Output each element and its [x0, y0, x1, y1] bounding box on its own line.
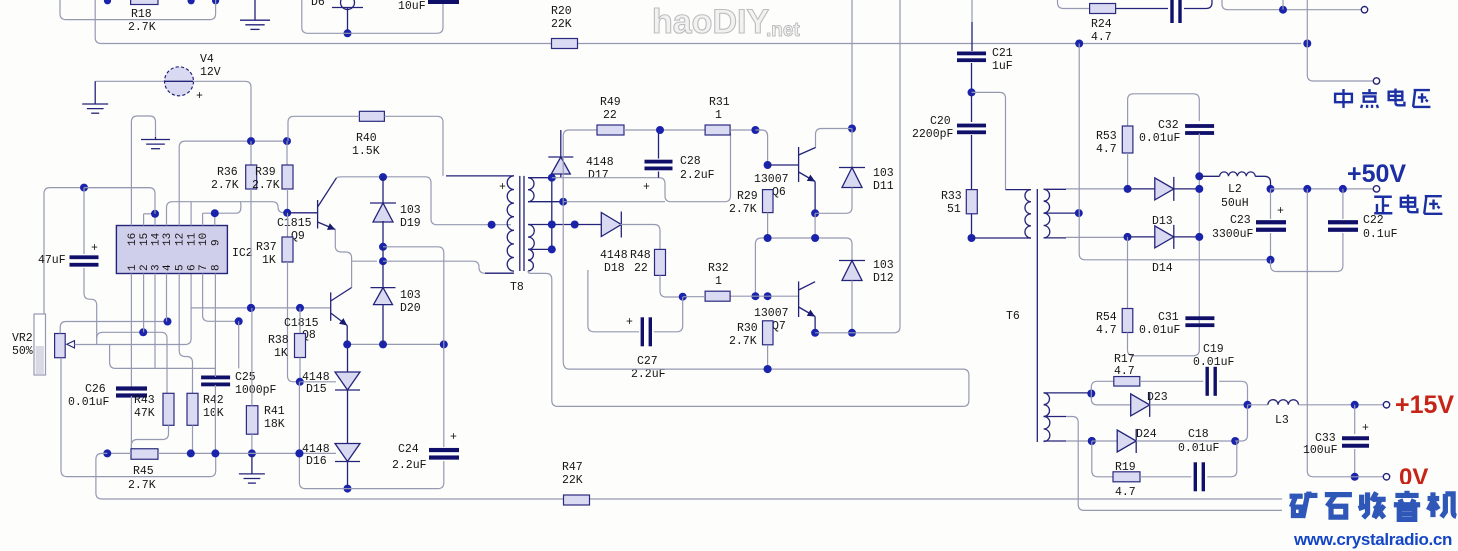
svg-text:+: +: [643, 181, 650, 194]
svg-text:C32: C32: [1158, 119, 1179, 132]
svg-text:Q6: Q6: [772, 186, 786, 199]
svg-text:14: 14: [151, 232, 163, 246]
svg-text:1K: 1K: [274, 347, 288, 360]
svg-text:C23: C23: [1230, 214, 1251, 227]
svg-text:C22: C22: [1363, 214, 1384, 227]
svg-text:103: 103: [400, 204, 421, 217]
svg-text:D23: D23: [1147, 391, 1168, 404]
svg-text:11: 11: [187, 232, 199, 246]
svg-text:R49: R49: [600, 96, 621, 109]
svg-text:51: 51: [947, 203, 961, 216]
svg-text:+: +: [626, 316, 633, 329]
svg-text:D11: D11: [873, 180, 894, 193]
svg-text:0.01uF: 0.01uF: [1193, 356, 1235, 369]
svg-text:R30: R30: [737, 322, 758, 335]
svg-text:4.7: 4.7: [1115, 486, 1136, 499]
svg-text:10K: 10K: [203, 407, 224, 420]
svg-text:1: 1: [715, 275, 722, 288]
svg-text:C1815: C1815: [277, 217, 312, 230]
svg-text:L3: L3: [1275, 414, 1289, 427]
svg-text:T6: T6: [1006, 310, 1020, 323]
svg-text:18K: 18K: [264, 418, 285, 431]
svg-text:22: 22: [603, 109, 617, 122]
svg-text:4.7: 4.7: [1091, 31, 1112, 44]
svg-text:R54: R54: [1096, 311, 1117, 324]
svg-text:VR2: VR2: [12, 332, 33, 345]
svg-text:22K: 22K: [562, 474, 583, 487]
svg-text:100uF: 100uF: [1303, 444, 1338, 457]
svg-text:2.7K: 2.7K: [128, 479, 156, 492]
svg-text:R47: R47: [562, 461, 583, 474]
svg-text:D20: D20: [400, 302, 421, 315]
svg-text:2.7K: 2.7K: [211, 179, 239, 192]
svg-text:1.5K: 1.5K: [352, 145, 380, 158]
svg-text:4.7: 4.7: [1096, 324, 1117, 337]
svg-text:R39: R39: [255, 166, 276, 179]
svg-text:50%: 50%: [12, 345, 33, 358]
svg-text:R53: R53: [1096, 130, 1117, 143]
svg-text:haoDIY: haoDIY: [652, 3, 769, 41]
svg-text:R29: R29: [737, 190, 758, 203]
svg-text:50uH: 50uH: [1221, 197, 1249, 210]
svg-text:22K: 22K: [551, 18, 572, 31]
svg-text:+: +: [91, 242, 98, 255]
svg-text:13007: 13007: [754, 173, 789, 186]
svg-text:4.7: 4.7: [1114, 365, 1135, 378]
svg-text:D15: D15: [306, 383, 327, 396]
svg-text:1: 1: [715, 109, 722, 122]
svg-text:D17: D17: [588, 169, 609, 182]
svg-text:R37: R37: [256, 241, 277, 254]
svg-text:www.crystalradio.cn: www.crystalradio.cn: [1293, 530, 1452, 549]
svg-text:+: +: [450, 431, 457, 444]
svg-text:8: 8: [210, 264, 222, 271]
svg-text:1: 1: [127, 264, 139, 271]
svg-text:R19: R19: [1115, 461, 1136, 474]
svg-text:D19: D19: [400, 217, 421, 230]
svg-text:C21: C21: [992, 47, 1013, 60]
svg-text:3300uF: 3300uF: [1212, 228, 1254, 241]
svg-text:0.1uF: 0.1uF: [1363, 228, 1398, 241]
svg-text:1uF: 1uF: [992, 60, 1013, 73]
svg-text:1K: 1K: [262, 254, 276, 267]
svg-text:0.01uF: 0.01uF: [1178, 442, 1220, 455]
svg-text:D18: D18: [604, 262, 625, 275]
svg-text:0.01uF: 0.01uF: [1139, 324, 1181, 337]
svg-text:R31: R31: [709, 96, 730, 109]
svg-text:T8: T8: [510, 281, 524, 294]
svg-text:D12: D12: [873, 272, 894, 285]
svg-text:2200pF: 2200pF: [912, 128, 954, 141]
svg-text:R41: R41: [264, 405, 285, 418]
svg-text:13: 13: [162, 233, 174, 246]
svg-text:C31: C31: [1158, 311, 1179, 324]
svg-text:9: 9: [210, 239, 222, 246]
svg-text:C28: C28: [680, 155, 701, 168]
svg-text:R48: R48: [630, 249, 651, 262]
svg-text:4: 4: [162, 264, 174, 271]
svg-text:+: +: [1362, 422, 1369, 435]
svg-text:2.7K: 2.7K: [128, 21, 156, 34]
svg-text:R40: R40: [356, 132, 377, 145]
svg-text:2: 2: [139, 264, 151, 271]
svg-text:103: 103: [873, 167, 894, 180]
svg-text:5: 5: [175, 264, 187, 271]
svg-text:V4: V4: [200, 53, 214, 66]
svg-text:2.2uF: 2.2uF: [392, 459, 427, 472]
svg-text:R38: R38: [268, 334, 289, 347]
svg-text:D14: D14: [1152, 262, 1173, 275]
svg-text:IC2: IC2: [232, 247, 253, 260]
svg-text:2.2uF: 2.2uF: [631, 368, 666, 381]
svg-text:+15V: +15V: [1395, 391, 1454, 419]
svg-text:+: +: [196, 90, 203, 103]
svg-text:4.7: 4.7: [1096, 143, 1117, 156]
svg-text:R24: R24: [1091, 18, 1112, 31]
svg-text:C20: C20: [930, 115, 951, 128]
svg-text:16: 16: [127, 233, 139, 246]
svg-text:C18: C18: [1188, 428, 1209, 441]
svg-text:C24: C24: [398, 443, 419, 456]
svg-text:10: 10: [198, 233, 210, 246]
svg-text:C26: C26: [85, 383, 106, 396]
svg-text:3: 3: [151, 264, 163, 271]
svg-text:D16: D16: [306, 455, 327, 468]
svg-text:13007: 13007: [754, 307, 789, 320]
svg-text:0.01uF: 0.01uF: [1139, 132, 1181, 145]
svg-text:C27: C27: [637, 355, 658, 368]
svg-text:C19: C19: [1203, 343, 1224, 356]
svg-text:R32: R32: [708, 262, 729, 275]
svg-text:2.7K: 2.7K: [729, 335, 757, 348]
svg-text:2.2uF: 2.2uF: [680, 169, 715, 182]
svg-text:4148: 4148: [586, 156, 614, 169]
svg-text:L2: L2: [1228, 183, 1242, 196]
svg-text:4148: 4148: [600, 249, 628, 262]
svg-text:+: +: [1277, 205, 1284, 218]
svg-text:R33: R33: [941, 190, 962, 203]
svg-text:103: 103: [400, 289, 421, 302]
svg-text:103: 103: [873, 259, 894, 272]
svg-text:.net: .net: [766, 20, 800, 41]
svg-text:0.01uF: 0.01uF: [68, 396, 110, 409]
svg-text:R36: R36: [217, 166, 238, 179]
svg-text:47uF: 47uF: [38, 254, 66, 267]
svg-text:15: 15: [139, 233, 151, 246]
svg-text:6: 6: [187, 264, 199, 271]
svg-text:R42: R42: [203, 394, 224, 407]
svg-text:7: 7: [198, 264, 210, 271]
svg-text:12V: 12V: [200, 66, 221, 79]
svg-text:1000pF: 1000pF: [235, 384, 277, 397]
svg-text:D24: D24: [1136, 428, 1157, 441]
svg-text:2.7K: 2.7K: [252, 179, 280, 192]
svg-text:12: 12: [175, 233, 187, 246]
svg-text:R45: R45: [133, 465, 154, 478]
svg-text:22: 22: [634, 262, 648, 275]
svg-text:Q7: Q7: [772, 320, 786, 333]
svg-text:R43: R43: [134, 394, 155, 407]
svg-text:R20: R20: [551, 5, 572, 18]
svg-text:2.7K: 2.7K: [729, 203, 757, 216]
svg-text:+50V: +50V: [1347, 160, 1406, 188]
svg-text:47K: 47K: [134, 407, 155, 420]
svg-text:C25: C25: [235, 371, 256, 384]
svg-text:D6: D6: [311, 0, 325, 9]
svg-text:10uF: 10uF: [398, 0, 426, 13]
svg-text:+: +: [499, 181, 506, 194]
